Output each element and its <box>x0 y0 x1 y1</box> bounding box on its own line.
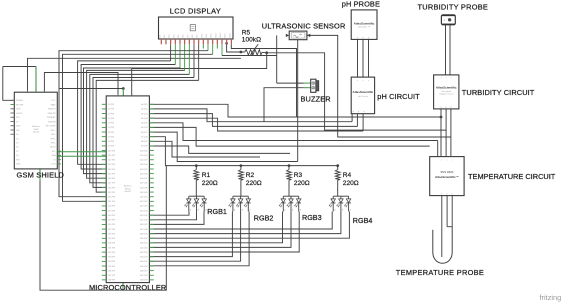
svg-text:v: v <box>368 80 369 82</box>
svg-text:ADC0: ADC0 <box>50 146 56 149</box>
wire lcd-p13 stub <box>216 44 218 48</box>
wire mcu-right y113.6 <box>149 114 357 127</box>
wire rgb-bus y224.4 <box>149 212 204 225</box>
svg-text:A9 D30: A9 D30 <box>141 145 147 148</box>
svg-text:D17 PW: D17 PW <box>108 183 115 185</box>
node J-rbus-337.7 <box>336 164 339 167</box>
wire rgb-bus y229.0 <box>149 212 332 230</box>
wire mcu-right y118.2 <box>149 118 363 131</box>
turbidity probe P2 <box>441 15 455 25</box>
svg-text:GSM: GSM <box>34 129 39 131</box>
wire mcu-right y132.1 <box>149 132 297 161</box>
svg-text:A3 D24: A3 D24 <box>141 117 147 120</box>
svg-text:D18 PW: D18 PW <box>108 187 115 189</box>
svg-text:D19 PW: D19 PW <box>108 192 115 194</box>
svg-text:GSM-RX: GSM-RX <box>48 113 57 115</box>
wire lcd-p11 to mcu <box>59 44 208 196</box>
svg-text:AtlasScientific™: AtlasScientific™ <box>435 175 459 179</box>
wire pH-bot2 <box>356 114 358 127</box>
svg-text:A1 D22: A1 D22 <box>141 108 147 111</box>
wire turb-temp 1 <box>440 109 442 157</box>
watermark fritzing <box>540 293 562 302</box>
wire lcd-p7 to mcu <box>90 44 190 183</box>
label LCD DISPLAY <box>170 7 221 16</box>
wire pH probe-circuit 2 <box>362 39 364 77</box>
wire mcu-bottom pin green <box>122 283 124 291</box>
svg-text:A32 D53: A32 D53 <box>140 251 147 254</box>
svg-text:D23 PW: D23 PW <box>108 210 115 212</box>
node J-p15 <box>225 42 228 45</box>
svg-text:A11 D32: A11 D32 <box>140 154 147 157</box>
svg-text:g: g <box>358 111 359 113</box>
wire buzzer pin2 <box>264 88 311 122</box>
svg-text:D1 PW: D1 PW <box>108 109 114 111</box>
svg-text:220Ω: 220Ω <box>294 180 310 187</box>
svg-text:ULTRASONIC SENSOR: ULTRASONIC SENSOR <box>262 21 346 30</box>
svg-text:220Ω: 220Ω <box>343 180 359 187</box>
svg-text:Dissolved: Dissolved <box>441 91 451 93</box>
wire ultrasonic-right feed <box>307 35 451 137</box>
svg-text:SPK-: SPK- <box>51 143 56 145</box>
wire rgb-bus y238.2 <box>149 212 349 239</box>
label R4 value <box>343 172 359 187</box>
svg-text:A17 D38: A17 D38 <box>140 182 147 185</box>
wire gsm-bottom route <box>40 166 166 291</box>
label R5 value <box>242 30 261 44</box>
svg-text:D32 PW: D32 PW <box>108 252 115 254</box>
wire pH probe-circuit 3 <box>368 39 370 77</box>
svg-text:GSM-TX: GSM-TX <box>48 109 56 111</box>
svg-text:D14 PW: D14 PW <box>108 169 115 171</box>
resistor R4 <box>335 166 340 197</box>
label RGB2 <box>254 213 274 222</box>
resistor R3 <box>287 166 292 197</box>
svg-text:RF JMP: RF JMP <box>16 104 24 106</box>
wire lcd-p5 to mcu <box>84 44 180 173</box>
wire gsm-right2 to mcu <box>57 155 106 157</box>
svg-text:v: v <box>450 78 451 80</box>
svg-text:A6 D27: A6 D27 <box>141 131 147 134</box>
potentiometer R5 <box>241 44 267 55</box>
svg-text:+: + <box>444 18 446 22</box>
svg-text:VCC: VCC <box>51 100 56 102</box>
svg-text:g: g <box>353 111 354 113</box>
svg-text:v: v <box>452 160 453 162</box>
svg-text:TURBIDITY CIRCUIT: TURBIDITY CIRCUIT <box>462 88 535 97</box>
svg-text:A35 D56: A35 D56 <box>140 265 147 268</box>
wire lcd-p12 to mcu <box>63 44 213 201</box>
resistor R1 <box>194 166 199 197</box>
wire pH-bot1 <box>351 114 353 122</box>
temperature probe P3 <box>433 196 452 264</box>
wire lcd-p16 right <box>231 44 296 117</box>
svg-text:MIC+: MIC+ <box>51 130 57 132</box>
svg-text:RGB2: RGB2 <box>254 213 274 222</box>
svg-text:R3: R3 <box>294 172 303 179</box>
svg-text:R2: R2 <box>246 172 255 179</box>
label ULTRASONIC SENSOR <box>262 21 346 30</box>
svg-text:A38 D59: A38 D59 <box>140 279 147 282</box>
svg-text:D37 PW: D37 PW <box>108 275 115 277</box>
svg-text:RGB3: RGB3 <box>302 213 322 222</box>
wire lcd-p10 stub <box>202 44 204 48</box>
label TURBIDITY CIRCUIT <box>462 88 535 97</box>
svg-text:100kΩ: 100kΩ <box>242 37 261 44</box>
svg-text:fritzing: fritzing <box>540 293 562 302</box>
svg-text:A12 D33: A12 D33 <box>140 159 147 162</box>
wire gsm-bottom pin green <box>39 169 41 181</box>
svg-text:g: g <box>440 106 441 108</box>
label RGB1 <box>207 207 227 216</box>
svg-text:D11 PW: D11 PW <box>108 155 115 157</box>
wire lcd-p3 to mcu <box>78 44 171 164</box>
label MICROCONTROLLER <box>89 283 166 292</box>
svg-text:D5 PW: D5 PW <box>108 127 114 129</box>
LCD display U2 <box>159 17 234 44</box>
label R3 value <box>294 172 310 187</box>
wire t2 top-left horizontal <box>3 66 36 68</box>
wire mcu-right y122.8 <box>149 123 437 141</box>
svg-text:PWRKEY: PWRKEY <box>47 117 56 119</box>
svg-text:ON/OF: ON/OF <box>16 113 23 115</box>
svg-text:D35 PW: D35 PW <box>108 266 115 268</box>
svg-text:GND: GND <box>16 126 21 128</box>
node J-rbus-196.3 <box>195 164 198 167</box>
svg-text:g: g <box>364 111 365 113</box>
svg-text:D31 PW: D31 PW <box>108 247 115 249</box>
svg-text:A34 D55: A34 D55 <box>140 260 147 263</box>
svg-text:VIN: VIN <box>16 130 20 132</box>
buzzer LS1 <box>311 79 319 92</box>
svg-text:D7 PW: D7 PW <box>108 136 114 138</box>
wire ultrasonic-bottom <box>297 40 299 162</box>
svg-text:D6 PW: D6 PW <box>108 132 114 134</box>
svg-text:A26 D47: A26 D47 <box>140 223 147 226</box>
label R1 value <box>202 172 218 187</box>
svg-text:A4 D25: A4 D25 <box>141 122 147 125</box>
svg-text:D25 PW: D25 PW <box>108 220 115 222</box>
svg-text:A31 D52: A31 D52 <box>140 246 147 249</box>
svg-text:v: v <box>447 160 448 162</box>
node J-rbus-240.9 <box>240 164 243 167</box>
svg-text:D27 PW: D27 PW <box>108 229 115 231</box>
wire pH-bot3 <box>362 114 364 131</box>
svg-text:A23 D44: A23 D44 <box>140 209 147 212</box>
label pH PROBE <box>342 0 380 9</box>
svg-text:pH probe ™: pH probe ™ <box>358 26 370 29</box>
node J-b1-turb <box>440 116 443 119</box>
wire turb-temp 3 <box>450 109 452 157</box>
svg-text:A28 D49: A28 D49 <box>140 232 147 235</box>
wire mcu-right y108.9 <box>149 109 352 122</box>
LED RGB1 <box>184 196 207 211</box>
svg-text:A14 D35: A14 D35 <box>140 168 147 171</box>
wire mcu-right y146.0 <box>149 146 290 153</box>
wire temp-feed corner <box>437 141 439 157</box>
svg-text:MIC-: MIC- <box>51 134 56 136</box>
svg-text:D30 PW: D30 PW <box>108 243 115 245</box>
wire lcd-p8 to mcu <box>93 44 194 187</box>
ultrasonic sensor U3 <box>286 31 310 40</box>
node J-mcu-top2 <box>122 87 125 90</box>
svg-text:Shield: Shield <box>33 132 40 134</box>
wire t3 gsm-top3 to mcu-top1 <box>44 73 118 96</box>
svg-text:A0 D21: A0 D21 <box>141 103 147 106</box>
wire lcd-p15 to R5 <box>227 44 241 52</box>
svg-text:RGB4: RGB4 <box>353 216 373 225</box>
wire rgb-bus y252.0 <box>149 212 299 253</box>
svg-text:A20 D41: A20 D41 <box>140 196 147 199</box>
GSM shield U7 <box>11 90 62 169</box>
label R2 value <box>246 172 262 187</box>
svg-text:A16 D37: A16 D37 <box>140 177 147 180</box>
resistor R2 <box>239 166 244 197</box>
svg-text:A30 D51: A30 D51 <box>140 242 147 245</box>
wire gsm-top2 green <box>35 67 37 93</box>
wire y88 gsm-area to mcu-top2 <box>59 88 123 90</box>
wire rgb-bus y242.8 <box>149 212 282 243</box>
svg-text:pH CIRCUIT: pH CIRCUIT <box>377 92 420 101</box>
node J-R5L <box>240 51 243 54</box>
svg-text:SNS WM4: SNS WM4 <box>440 170 453 174</box>
svg-text:A5 D26: A5 D26 <box>141 126 147 129</box>
svg-text:D4 PW: D4 PW <box>108 123 114 125</box>
svg-text:pH Circuit: pH Circuit <box>358 95 368 98</box>
svg-text:A37 D58: A37 D58 <box>140 274 147 277</box>
svg-text:D16 PW: D16 PW <box>108 178 115 180</box>
label TEMPERATURE CIRCUIT <box>468 172 556 181</box>
svg-text:D2 PW: D2 PW <box>108 113 114 115</box>
label TEMPERATURE PROBE <box>396 268 484 277</box>
svg-text:D22 PW: D22 PW <box>108 206 115 208</box>
svg-text:Mega: Mega <box>125 188 131 190</box>
LED RGB4 <box>329 196 352 211</box>
svg-text:A18 D39: A18 D39 <box>140 186 147 189</box>
wire lcd-p14 to node <box>222 44 277 55</box>
wire pH probe-circuit 1 <box>357 39 359 77</box>
svg-text:A24 D45: A24 D45 <box>140 214 147 217</box>
svg-text:D36 PW: D36 PW <box>108 270 115 272</box>
wire ultrasonic-left feed <box>276 35 278 83</box>
svg-text:v: v <box>441 160 442 162</box>
svg-text:g: g <box>446 106 447 108</box>
svg-text:VBAT: VBAT <box>51 103 57 106</box>
wire mcu-right y141.3 <box>149 141 260 157</box>
pH probe P1 <box>351 10 377 40</box>
svg-text:v: v <box>441 78 442 80</box>
svg-text:R4: R4 <box>343 172 352 179</box>
svg-text:SPK+: SPK+ <box>50 138 56 140</box>
LED RGB3 <box>279 196 302 211</box>
svg-text:TEMPERATURE PROBE: TEMPERATURE PROBE <box>396 268 484 277</box>
wire R5-right to x324 <box>267 53 446 130</box>
LED RGB2 <box>228 196 251 211</box>
wire rgb-bus y233.6 <box>149 212 341 234</box>
svg-text:D9 PW: D9 PW <box>108 146 114 148</box>
wire mcu-right y127.4 <box>149 127 429 146</box>
svg-text:LCD DISPLAY: LCD DISPLAY <box>170 7 221 16</box>
svg-text:D28 PW: D28 PW <box>108 233 115 235</box>
svg-text:CHG: CHG <box>16 109 21 111</box>
wire turb probe-circuit 2 <box>449 25 451 75</box>
svg-text:D13 PW: D13 PW <box>108 164 115 166</box>
svg-text:D12 PW: D12 PW <box>108 160 115 162</box>
svg-text:D20 PW: D20 PW <box>108 197 115 199</box>
svg-text:v: v <box>357 80 358 82</box>
svg-text:v: v <box>363 80 364 82</box>
svg-text:AtlasScientific: AtlasScientific <box>436 85 457 89</box>
turbidity circuit U5 <box>434 75 459 109</box>
svg-text:A36 D57: A36 D57 <box>140 269 147 272</box>
wire rgb-bus y256.6 <box>149 212 232 257</box>
svg-text:Arduino: Arduino <box>124 185 132 188</box>
wire net-gsm-left <box>3 67 15 101</box>
wire mcu-top2 pin green <box>122 89 124 96</box>
wire rgb-bus y247.4 <box>149 212 291 248</box>
svg-text:SDA: SDA <box>51 154 56 157</box>
wire lcd-p9 to mcu <box>96 44 198 192</box>
svg-text:STATUS: STATUS <box>48 120 56 123</box>
svg-text:A29 D50: A29 D50 <box>140 237 147 240</box>
svg-text:D0 PW: D0 PW <box>108 104 114 106</box>
wire turb-temp 2 <box>445 109 447 157</box>
svg-text:A13 D34: A13 D34 <box>140 163 147 166</box>
pH circuit U4 <box>351 77 374 114</box>
node J-R5R <box>265 51 268 54</box>
svg-text:A25 D46: A25 D46 <box>140 219 147 222</box>
svg-text:v: v <box>446 78 447 80</box>
label TURBIDITY PROBE <box>418 3 489 12</box>
svg-text:BUZZER: BUZZER <box>301 95 331 104</box>
label BUZZER <box>301 95 331 104</box>
wire gsm-right1 to mcu <box>57 151 106 153</box>
svg-text:D21 PW: D21 PW <box>108 201 115 203</box>
svg-text:D15 PW: D15 PW <box>108 173 115 175</box>
svg-text:RF ANT: RF ANT <box>16 99 24 102</box>
svg-text:TURBIDITY PROBE: TURBIDITY PROBE <box>418 3 489 12</box>
svg-text:A8 D29: A8 D29 <box>141 140 147 143</box>
svg-text:pH PROBE: pH PROBE <box>342 0 380 9</box>
label pH CIRCUIT <box>377 92 420 101</box>
svg-text:GND: GND <box>16 164 21 166</box>
wire rgb-bus y261.2 <box>149 212 240 262</box>
temperature circuit U6 <box>430 157 464 196</box>
svg-text:A7 D28: A7 D28 <box>141 135 147 138</box>
wire t1 gsm-top1 to R5 area <box>28 58 241 92</box>
svg-text:D10 PW: D10 PW <box>108 150 115 152</box>
svg-text:220Ω: 220Ω <box>202 180 218 187</box>
wire rgb-bus y219.8 <box>149 212 196 220</box>
svg-text:A15 D36: A15 D36 <box>140 172 147 175</box>
wire lcd-p6 to mcu <box>87 44 185 178</box>
svg-text:TEMPERATURE CIRCUIT: TEMPERATURE CIRCUIT <box>468 172 556 181</box>
svg-text:AtlasScientific: AtlasScientific <box>354 21 375 25</box>
wire mcu-right y104.3 <box>149 104 441 117</box>
svg-text:Oxygen Circuit: Oxygen Circuit <box>439 93 454 96</box>
svg-text:A2 D23: A2 D23 <box>141 112 147 115</box>
svg-text:(Rev3): (Rev3) <box>125 191 132 193</box>
svg-text:220Ω: 220Ω <box>246 180 262 187</box>
label GSM SHIELD <box>17 171 65 180</box>
svg-text:A19 D40: A19 D40 <box>140 191 147 194</box>
svg-text:MICROCONTROLLER: MICROCONTROLLER <box>89 283 166 292</box>
label RGB4 <box>353 216 373 225</box>
svg-text:D38 PW: D38 PW <box>108 280 115 282</box>
svg-text:D3 PW: D3 PW <box>108 118 114 120</box>
svg-text:R1: R1 <box>202 172 211 179</box>
wire mcu-right y136.7 <box>149 137 337 166</box>
svg-text:A33 D54: A33 D54 <box>140 256 147 259</box>
node J-rbus-289.0 <box>288 164 291 167</box>
svg-text:D33 PW: D33 PW <box>108 257 115 259</box>
wire rgb-bus y215.2 <box>149 212 189 216</box>
svg-text:A27 D48: A27 D48 <box>140 228 147 231</box>
microcontroller U1 <box>102 94 154 283</box>
svg-text:Arduino: Arduino <box>32 125 40 128</box>
svg-text:D34 PW: D34 PW <box>108 261 115 263</box>
svg-text:A10 D31: A10 D31 <box>140 149 147 152</box>
svg-text:A21 D42: A21 D42 <box>140 200 147 203</box>
wire rgb-bus y265.8 <box>149 212 249 266</box>
svg-text:DTR: DTR <box>51 164 56 166</box>
svg-text:D24 PW: D24 PW <box>108 215 115 217</box>
svg-text:g: g <box>450 106 451 108</box>
wire turb probe-circuit 1 <box>445 25 447 75</box>
svg-text:D26 PW: D26 PW <box>108 224 115 226</box>
svg-text:D8 PW: D8 PW <box>108 141 114 143</box>
svg-text:A22 D43: A22 D43 <box>140 205 147 208</box>
svg-text:D29 PW: D29 PW <box>108 238 115 240</box>
svg-text:NETLIGHT: NETLIGHT <box>46 126 57 128</box>
wire mcu-top3 to R5-right <box>132 53 267 96</box>
svg-text:RGB1: RGB1 <box>207 207 227 216</box>
svg-text:GSM SHIELD: GSM SHIELD <box>17 171 65 180</box>
wire buzzer pin1 <box>277 82 311 84</box>
label RGB3 <box>302 213 322 222</box>
wire lcd-p4 to mcu <box>81 44 175 169</box>
svg-text:AtlasScientific: AtlasScientific <box>353 90 374 94</box>
